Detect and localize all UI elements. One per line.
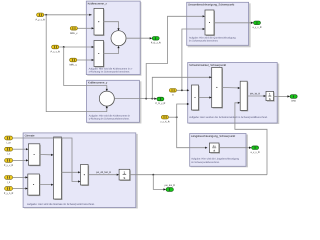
wire oval5 to block D input2 [13, 188, 26, 190]
svg-text:a_y_v_R: a_y_v_R [252, 26, 261, 29]
subsystem Gierrate [23, 133, 138, 209]
svg-text:beta: beta [291, 99, 296, 102]
wire block E to block F input1 [62, 171, 79, 173]
wire block B to sum circle bottom [104, 47, 119, 53]
product block B (Kräftesumme_x bottom) [94, 41, 105, 68]
sum block E (Gierrate tall) [54, 137, 63, 200]
svg-text:Kräftesumme_x: Kräftesumme_x [88, 2, 108, 5]
inport l_v (Gierrate oval 3) [4, 159, 14, 167]
wire m to SB1 input1 [177, 89, 188, 91]
outport psi_dot_R [165, 184, 176, 191]
wire block A to sum circle top [104, 22, 119, 30]
gain block A2 (Gesamtbeschleunigung) [205, 10, 215, 36]
svg-text:Aufgabe: Hier wird die Gierrat: Aufgabe: Hier wird die Gierrate im Schwe… [27, 203, 95, 206]
wire sum circle to outport F_G_x_R [126, 37, 150, 39]
product block A (Kräftesumme_x top) [94, 8, 105, 36]
svg-text:1: 1 [269, 93, 271, 97]
outport a_y_v_R [252, 21, 261, 29]
wire inport MRL_y to block B input2 [77, 59, 92, 61]
wire oval3 to block C input2 [13, 159, 27, 161]
wire F_G_y branch up to Gesamt input1 [146, 16, 203, 98]
svg-text:F_y_v_R: F_y_v_R [4, 164, 14, 167]
inport J_z (Gierrate oval 1) [5, 136, 13, 144]
svg-text:1: 1 [123, 171, 125, 175]
wire SB1 to SB2 input2 [199, 97, 210, 99]
wire inport F_x_v_R to block B input1 [59, 46, 92, 48]
outport F_G_y_R [155, 97, 165, 105]
subsystem Kräftesumme_x [86, 1, 141, 76]
svg-text:im Schwerpunkt berechnet.: im Schwerpunkt berechnet. [189, 39, 218, 42]
svg-text:Aufgabe: Hier werden die Schwi: Aufgabe: Hier werden die Schwimmwinkel i… [189, 116, 268, 119]
svg-text:F_G_x_R: F_G_x_R [151, 41, 161, 44]
node junction Jm [181, 89, 183, 91]
divide block F (Gierrate) [81, 165, 90, 187]
derivative block du/dt [209, 143, 220, 154]
wire Gesamt block to outport a_y_v_R [214, 22, 251, 24]
subsystem Gesamtbeschleunigung_Schwerpunkt [187, 2, 251, 47]
integrator block G (1/s) [119, 169, 131, 181]
svg-text:MRL_y: MRL_y [70, 63, 78, 66]
outport a_x_v_R [251, 146, 260, 154]
wire oval1 to block F input2 [13, 138, 79, 182]
svg-text:m: m [172, 94, 174, 97]
outport F_G_x_R [151, 37, 161, 45]
wire v_x junction vertical [169, 116, 177, 118]
inport F_y_h_R (Gierrate oval 4) [5, 176, 13, 184]
wire block F to integrator G with label psi_dd_R [88, 174, 117, 176]
wire F_G_y branch to SB2 input1 [152, 77, 209, 98]
wire m branch up to Gesamt input2 [182, 29, 203, 90]
svg-text:dt: dt [213, 149, 215, 152]
node junction J2a [145, 98, 147, 100]
svg-text:MRL_x: MRL_x [70, 32, 78, 35]
wire inport F_y_v_R to block A input1 [44, 14, 92, 16]
wire v_x down to du/dt block [177, 117, 206, 148]
node junction T1 [45, 14, 47, 16]
svg-text:MA_W_R: MA_W_R [250, 93, 261, 96]
subsystem Schwimmwinkel_Schwerpunkt [188, 63, 280, 125]
svg-text:Gierrate: Gierrate [25, 134, 35, 137]
svg-text:v_x_K_R: v_x_K_R [160, 121, 170, 124]
svg-text:x-Richtung im Schwerpunkt bere: x-Richtung im Schwerpunkt berechnet. [89, 71, 131, 74]
inport v_x_K_R [160, 115, 170, 123]
wire inport MRL_x to block A input2 [77, 27, 92, 29]
product block C (Gierrate top) [28, 144, 40, 166]
svg-text:Schwimmwinkel_Schwerpunkt: Schwimmwinkel_Schwerpunkt [189, 64, 226, 67]
wire junction down to outport psi_dot_R [153, 175, 164, 190]
svg-text:Gesamtbeschleunigung_Schwerpun: Gesamtbeschleunigung_Schwerpunkt [188, 4, 235, 7]
node junction Jv [176, 116, 178, 118]
product block SB1 (Schwimmwinkel m*v) [192, 85, 200, 111]
inport MRL_y [70, 58, 78, 66]
wire block D to block E input2 [39, 184, 51, 186]
svg-text:F_G_y_R: F_G_y_R [155, 102, 165, 105]
product block D (Gierrate bottom) [28, 174, 41, 196]
svg-text:psi_dot_R: psi_dot_R [165, 184, 176, 187]
svg-text:s: s [269, 97, 271, 101]
sum block SB3 (Schwimmwinkel) [240, 81, 248, 111]
svg-text:y-Richtung im Schwerpunktberec: y-Richtung im Schwerpunktberechnet. [89, 117, 130, 120]
outport beta_R [290, 95, 297, 103]
inport F_y_v_R [36, 13, 46, 22]
sum circle U1 (Kräftesumme_x) [111, 31, 127, 47]
subsystem Kräftesumme_y [87, 80, 142, 123]
subsystem Längsbeschleunigung_Schwerpunkt [190, 134, 248, 168]
svg-text:Kräftesumme_y: Kräftesumme_y [88, 82, 108, 85]
wire integrator G to Gierrate box edge and across bottom [130, 174, 267, 176]
node junction Jpsi [152, 174, 154, 176]
svg-text:Längsbeschleunigung_Schwerpunk: Längsbeschleunigung_Schwerpunkt [191, 135, 235, 138]
svg-text:s: s [124, 176, 126, 180]
wire du/dt to outport a_x_v_R [219, 147, 249, 149]
inport m [169, 89, 176, 97]
wire yaw rate feedback to SB3 input2 [235, 103, 267, 175]
svg-text:F_x_v_R: F_x_v_R [51, 51, 61, 54]
svg-text:psi_dd_MA_R: psi_dd_MA_R [96, 171, 111, 174]
wire SB2 to SB3 input1 [222, 87, 238, 89]
inport F_x_v_R [51, 45, 61, 54]
wire oval2 to block C input1 [13, 148, 27, 150]
svg-text:a_x_v_R: a_x_v_R [251, 151, 260, 154]
node junction T3 [63, 46, 65, 48]
wire SB4 to outport beta [274, 95, 288, 97]
inport F_y_v_R (Gierrate oval 2) [5, 147, 13, 155]
node junction J2b [151, 98, 153, 100]
wire v_x up to SB1 input2 [177, 104, 187, 117]
svg-text:F_y_v_R: F_y_v_R [36, 19, 46, 22]
sum circle U2 (Kräftesumme_y) [99, 91, 115, 107]
divide block SB2 (Schwimmwinkel) [212, 67, 223, 108]
wire oval4 to block D input1 [13, 176, 26, 178]
inport MRL_x [70, 27, 78, 35]
inport l_h (Gierrate oval 5) [4, 187, 14, 195]
wire block C to block E input1 [40, 154, 52, 156]
wire from node T3 down into sum circle U2 top [64, 47, 107, 90]
wire sum circle U2 to outport F_G_y_R [114, 98, 154, 100]
integrator block SB4 (1/s) [266, 91, 275, 101]
svg-text:im Schwerpunktberechnet.: im Schwerpunktberechnet. [191, 161, 220, 164]
wire SB3 to SB4 [247, 95, 264, 97]
wire from node T1 down into sum circle U2 bottom [46, 15, 107, 112]
svg-text:F_y_h_R: F_y_h_R [4, 192, 14, 195]
